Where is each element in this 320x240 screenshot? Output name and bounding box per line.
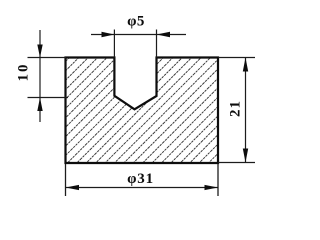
svg-text:φ5: φ5: [127, 14, 145, 30]
svg-text:φ31: φ31: [127, 171, 154, 187]
svg-text:21: 21: [228, 100, 244, 117]
svg-text:10: 10: [16, 63, 32, 82]
